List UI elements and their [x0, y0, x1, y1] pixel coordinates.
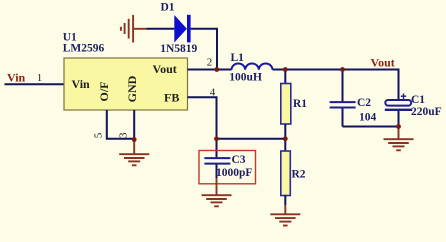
wire R2 bottom stub	[284, 196, 286, 206]
svg-text:Vout: Vout	[371, 55, 395, 69]
IC U1 LM2596	[63, 31, 188, 110]
pin 3 stub of IC (GND)	[133, 110, 135, 140]
junction node C2 top	[340, 67, 345, 72]
junction node FB/C3	[214, 136, 219, 141]
inductor L1	[229, 52, 272, 84]
svg-text:220uF: 220uF	[411, 106, 442, 118]
pin 5 stub of IC (O/F)	[107, 110, 134, 139]
capacitor C1 (polarized)	[385, 94, 442, 127]
capacitor C3	[204, 139, 252, 179]
junction node R1/R2	[283, 136, 288, 141]
wire R1 bottom stub	[284, 124, 286, 139]
wire C2 bottom to C1 bottom	[343, 126, 399, 128]
svg-text:O/F: O/F	[97, 82, 111, 102]
wire R1 top stub	[284, 70, 286, 84]
svg-text:FB: FB	[164, 91, 179, 105]
resistor R1	[281, 84, 308, 125]
resistor R2	[281, 151, 306, 196]
svg-text:3: 3	[118, 132, 130, 138]
wire junction row to R divider	[217, 138, 286, 140]
svg-text:C1: C1	[411, 94, 425, 106]
wire FB pin4 to junction row	[188, 97, 217, 139]
svg-text:GND: GND	[125, 75, 139, 102]
wire R2 top stub	[284, 139, 286, 151]
svg-text:100uH: 100uH	[229, 72, 262, 84]
svg-text:C2: C2	[357, 97, 371, 109]
junction node R1 top	[283, 67, 288, 72]
junction node C1 bottom	[396, 124, 401, 129]
ground (below IC GND pin)	[119, 140, 149, 166]
svg-text:104: 104	[359, 112, 377, 124]
svg-text:5: 5	[92, 132, 104, 138]
svg-text:Vin: Vin	[7, 70, 26, 84]
ground (below R2)	[270, 205, 300, 226]
svg-text:C3: C3	[232, 154, 246, 166]
svg-text:1000pF: 1000pF	[216, 167, 252, 179]
capacitor C2	[330, 70, 377, 127]
junction node GND pin	[132, 137, 137, 142]
svg-text:LM2596: LM2596	[63, 43, 105, 55]
svg-text:U1: U1	[63, 31, 77, 43]
svg-text:1N5819: 1N5819	[160, 43, 197, 55]
red highlight box around C3	[199, 151, 256, 184]
svg-text:R2: R2	[292, 168, 306, 180]
svg-text:1: 1	[37, 72, 43, 84]
diode D1	[160, 2, 197, 56]
svg-text:R1: R1	[293, 98, 307, 110]
svg-text:Vout: Vout	[153, 62, 177, 76]
ground (below C3)	[202, 178, 232, 206]
junction node pin2/D1/L1	[214, 67, 219, 72]
wire Vin net	[5, 83, 65, 85]
svg-text:L1: L1	[231, 52, 245, 64]
wire D1 cathode to node	[191, 29, 217, 70]
wire pin2 Vout of IC to L1	[188, 69, 232, 71]
svg-text:Vin: Vin	[72, 77, 91, 91]
ground (below C1)	[384, 127, 414, 151]
wire L1 to C1 top	[273, 70, 399, 101]
ground (at D1 anode, rotated left)	[121, 15, 147, 43]
wire D1 anode	[147, 28, 175, 30]
svg-text:D1: D1	[161, 2, 175, 14]
svg-text:2: 2	[207, 57, 213, 69]
